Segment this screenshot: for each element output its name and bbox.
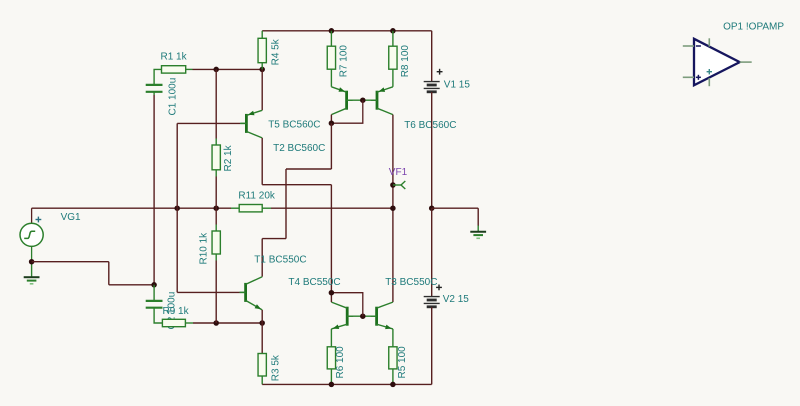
junction node R2/R10	[213, 205, 219, 211]
wire (R4 bottom lead)	[261, 63, 263, 70]
junction node R1/R2	[213, 67, 219, 73]
svg-text:R7 100: R7 100	[339, 45, 350, 78]
wire	[215, 69, 217, 138]
capacitor C2	[146, 292, 178, 330]
wire	[285, 169, 287, 239]
junction node T2 collector tie	[329, 120, 335, 126]
wire	[261, 69, 263, 110]
wire (R5 bottom lead)	[392, 369, 394, 385]
junction node T4/T3 bases	[360, 313, 366, 319]
wire	[431, 208, 433, 296]
wire (T2-T6 base link)	[347, 99, 377, 101]
wire	[153, 95, 155, 285]
wire (C1 bottom lead)	[153, 92, 155, 95]
wire	[286, 168, 331, 170]
transistor T3	[371, 277, 438, 329]
junction node out/R11	[390, 205, 396, 211]
wire	[193, 322, 262, 324]
ground (supply mid)	[470, 226, 486, 239]
wire (base tie up)	[331, 293, 362, 317]
wire	[262, 184, 331, 186]
transistor T2	[273, 87, 353, 154]
wire (R1 right lead)	[186, 68, 193, 70]
wire	[215, 261, 217, 324]
junction node V1/V2 mid	[429, 205, 435, 211]
svg-text:OP1 !OPAMP: OP1 !OPAMP	[723, 22, 784, 33]
wire (R4 top lead)	[261, 31, 263, 39]
svg-text:VG1: VG1	[61, 212, 81, 223]
transistor T5	[240, 110, 320, 138]
wire (R8 top lead)	[392, 31, 394, 46]
wire	[177, 291, 239, 293]
wire (T1 base lead)	[240, 291, 246, 293]
wire	[330, 123, 332, 169]
resistor R5	[389, 346, 408, 379]
wire (R1 left lead + C1 top lead)	[154, 69, 161, 85]
wire	[32, 261, 109, 263]
resistor R3	[258, 354, 281, 382]
wire	[215, 208, 217, 224]
wire (R2 bottom lead)	[215, 170, 217, 177]
wire	[177, 122, 240, 124]
wire	[432, 207, 479, 209]
wire (T4 emitter to R6)	[330, 329, 332, 347]
resistor R7	[327, 45, 349, 78]
transistor T4	[288, 277, 353, 329]
svg-text:R8 100: R8 100	[400, 45, 411, 78]
wire	[261, 310, 263, 323]
wire (C2 top lead)	[153, 285, 155, 301]
wire	[176, 123, 178, 208]
svg-text:R4 5k: R4 5k	[270, 38, 281, 65]
wire	[32, 207, 231, 209]
junction node rail/R7	[329, 28, 335, 34]
capacitor C1	[146, 78, 179, 116]
wire	[477, 208, 479, 226]
wire	[108, 262, 110, 285]
wire	[261, 239, 263, 277]
junction node T2/T6 bases	[360, 97, 366, 103]
battery V2	[424, 285, 470, 307]
wire	[271, 207, 393, 209]
wire	[330, 293, 332, 302]
junction output node VF1	[390, 182, 396, 188]
wire	[262, 30, 432, 32]
svg-text:R11 20k: R11 20k	[238, 190, 276, 201]
svg-text:T1 BC550C: T1 BC550C	[254, 255, 306, 266]
wire	[431, 31, 433, 82]
resistor R1	[161, 52, 188, 74]
svg-text:T2 BC560C: T2 BC560C	[273, 143, 325, 154]
svg-text:R9 1k: R9 1k	[163, 306, 190, 317]
voltage probe VF1	[389, 167, 408, 189]
wire (R8 bottom lead / T6 emitter)	[392, 69, 394, 87]
wire (R11 lead right)	[262, 207, 271, 209]
wire	[330, 185, 332, 293]
wire	[431, 307, 433, 384]
wire (R3 bottom lead)	[261, 376, 263, 384]
wire	[262, 238, 286, 240]
wire (R11 lead left)	[231, 207, 239, 209]
wire	[176, 208, 178, 292]
wire	[261, 323, 263, 354]
svg-text:R6 100: R6 100	[335, 346, 346, 379]
svg-text:R2 1k: R2 1k	[223, 144, 234, 171]
wire (T3 emitter to R5)	[392, 329, 394, 347]
wire	[330, 115, 332, 124]
junction node rail/R6	[329, 382, 335, 388]
wire (R7 top lead)	[330, 31, 332, 46]
junction node C1/C2/VG1-	[151, 282, 157, 288]
junction node R10/R9	[213, 320, 219, 326]
svg-text:T3 BC550C: T3 BC550C	[385, 277, 437, 288]
svg-text:R1 1k: R1 1k	[161, 52, 188, 63]
wire	[261, 138, 263, 185]
svg-text:T5 BC560C: T5 BC560C	[268, 120, 320, 131]
resistor R11	[238, 190, 276, 212]
wire (R6 bottom lead)	[330, 369, 332, 385]
wire	[193, 68, 263, 70]
wire	[431, 92, 433, 208]
resistor R9	[162, 306, 189, 326]
op-amp OP1	[683, 22, 785, 87]
wire (R7 bottom lead / T2 emitter)	[330, 69, 332, 87]
wire (R2 top lead)	[215, 139, 217, 146]
wire (T4-T3 base link)	[347, 315, 376, 317]
wire	[262, 383, 432, 385]
wire (R10 top lead)	[215, 225, 217, 232]
junction node T1e/R3	[259, 320, 265, 326]
junction node rail/R8	[390, 28, 396, 34]
svg-text:R3 5k: R3 5k	[270, 354, 281, 381]
resistor R10	[199, 231, 221, 265]
svg-text:V2 15: V2 15	[443, 294, 470, 305]
resistor R6	[327, 346, 346, 379]
wire (base tie down)	[331, 100, 362, 123]
svg-text:VF1: VF1	[389, 167, 408, 178]
battery V1	[424, 69, 471, 92]
resistor R2	[212, 144, 234, 171]
wire	[392, 115, 394, 303]
transistor T6	[371, 87, 456, 131]
svg-text:R5 100: R5 100	[397, 346, 408, 379]
wire (R10 bottom lead)	[215, 254, 217, 261]
wire (R9 right lead)	[185, 322, 193, 324]
ground (below VG1)	[24, 262, 40, 284]
resistor R8	[389, 45, 411, 78]
transistor T1	[240, 255, 307, 310]
junction node R4/T5e	[259, 67, 265, 73]
voltage source VG1	[20, 208, 81, 262]
svg-text:T6 BC560C: T6 BC560C	[404, 120, 456, 131]
junction node rail/R5	[390, 382, 396, 388]
wire	[215, 177, 217, 209]
wire	[109, 284, 154, 286]
junction node T4 collector tie	[329, 290, 335, 296]
svg-text:R10 1k: R10 1k	[199, 232, 210, 265]
wire (C2 bottom lead + R9 left lead)	[154, 308, 162, 323]
junction VG1 minus node	[29, 259, 34, 265]
resistor R4	[258, 38, 281, 65]
wire (T5 base lead)	[240, 122, 246, 124]
svg-text:V1 15: V1 15	[444, 80, 471, 91]
svg-text:T4 BC550C: T4 BC550C	[288, 277, 340, 288]
junction input node A	[174, 205, 180, 211]
svg-text:C1 100u: C1 100u	[168, 78, 179, 116]
